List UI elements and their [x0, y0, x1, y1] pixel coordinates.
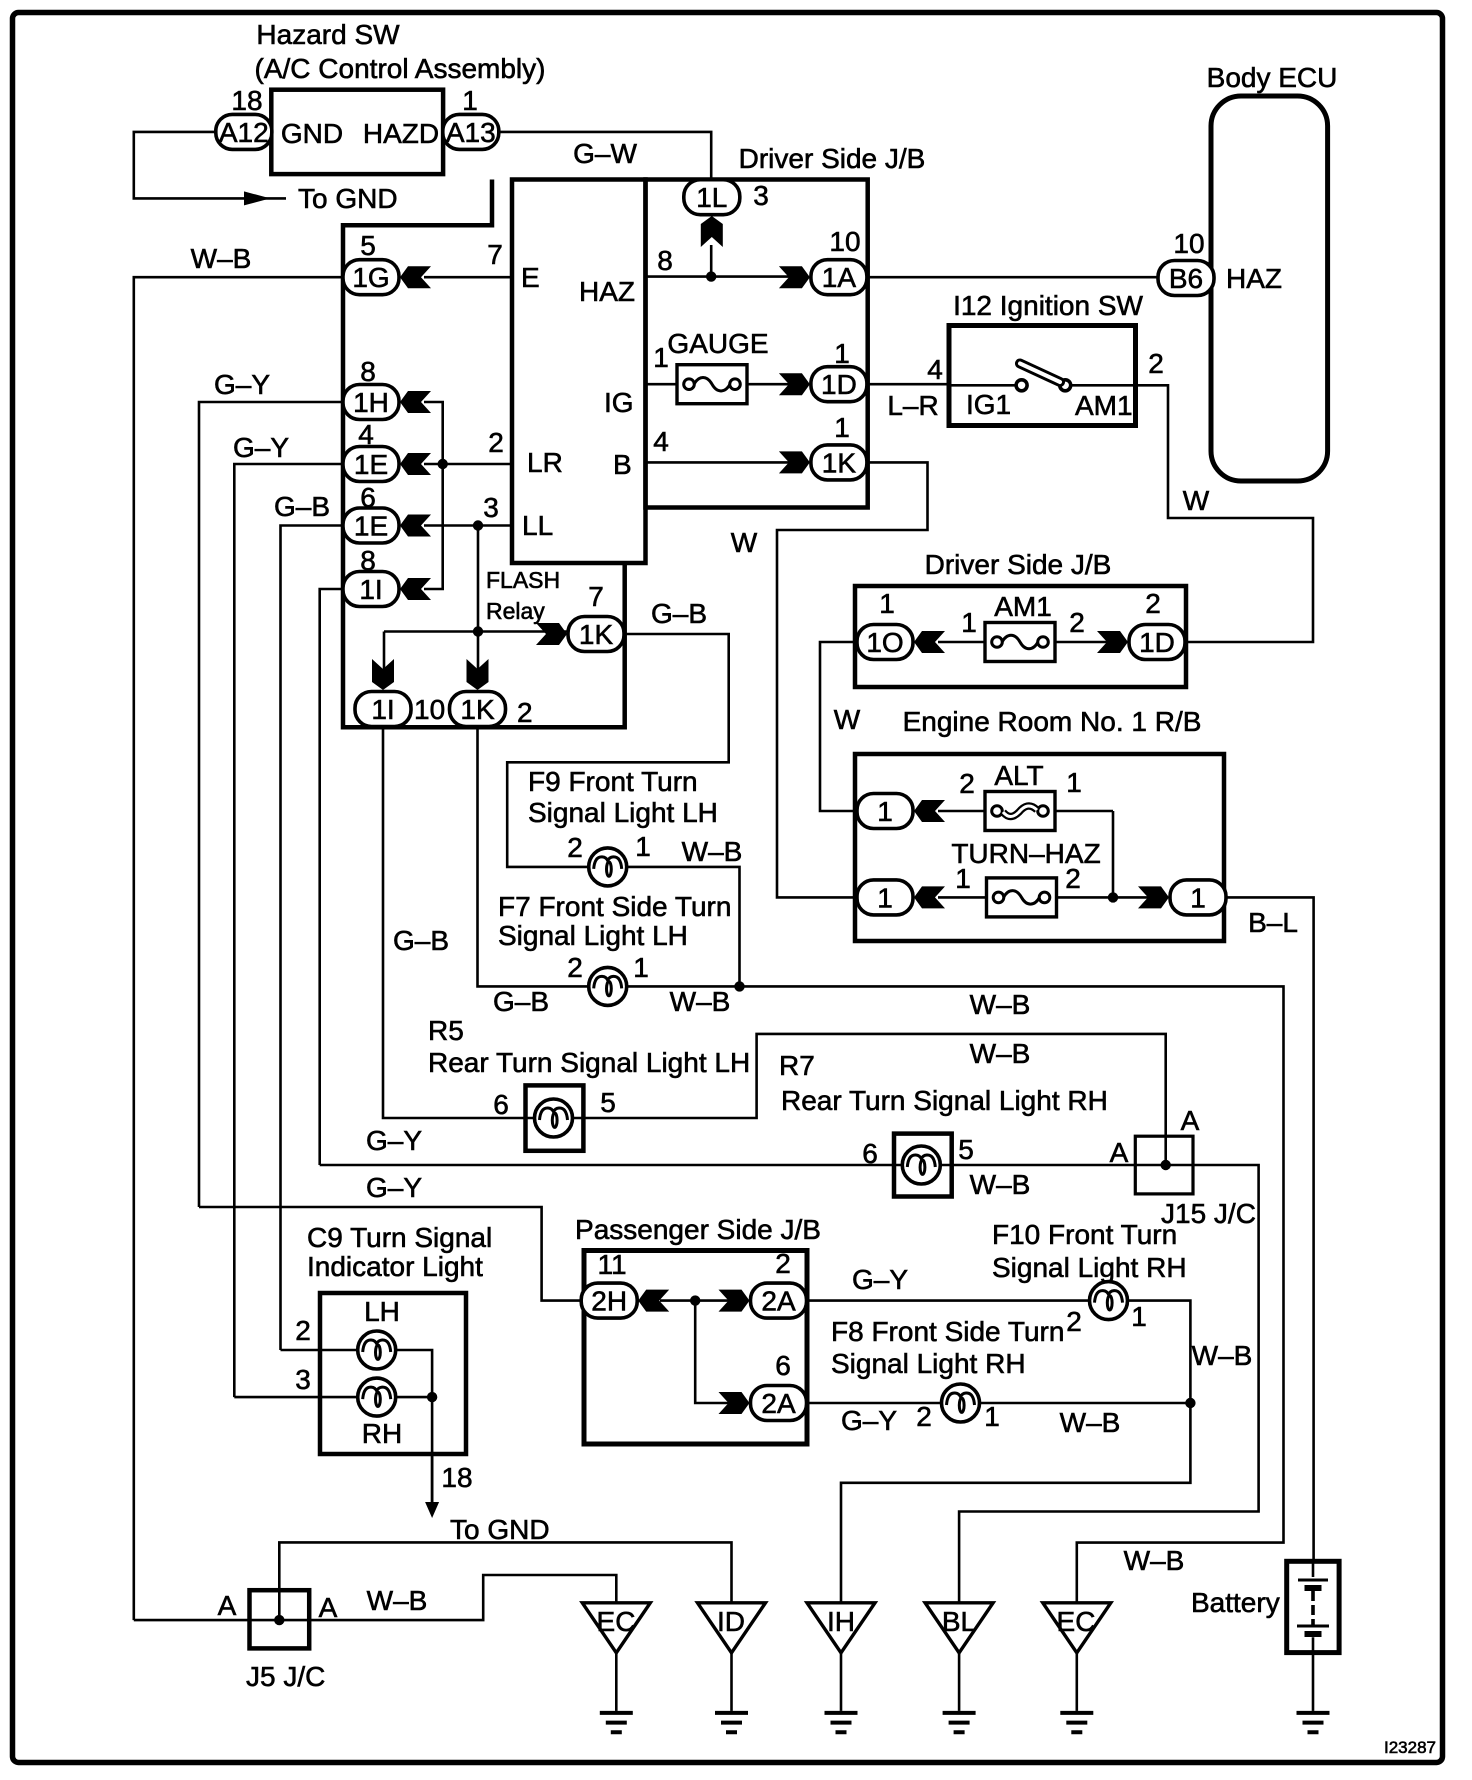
junction dot 2H row: [690, 1295, 700, 1305]
svg-text:B–L: B–L: [1248, 907, 1298, 938]
svg-text:6: 6: [493, 1089, 509, 1120]
svg-text:5: 5: [600, 1087, 616, 1118]
svg-text:2A: 2A: [761, 1388, 796, 1419]
arrow into 1K J/B: [779, 451, 810, 473]
wire ID triangle to ground: [730, 1653, 733, 1711]
C9 indicator box: [320, 1293, 466, 1454]
svg-text:2: 2: [1069, 607, 1085, 638]
svg-text:Indicator Light: Indicator Light: [307, 1251, 483, 1282]
wire 1G W-B left rail down to J5: [134, 277, 343, 1620]
svg-text:Relay: Relay: [486, 598, 545, 624]
svg-text:W: W: [834, 704, 861, 735]
svg-text:(A/C Control Assembly): (A/C Control Assembly): [255, 53, 546, 84]
svg-text:1: 1: [1131, 1301, 1147, 1332]
svg-text:HAZD: HAZD: [363, 118, 439, 149]
junction dot F8 row: [1185, 1398, 1195, 1408]
svg-text:LL: LL: [522, 510, 553, 541]
svg-text:1A: 1A: [822, 262, 857, 293]
svg-text:6: 6: [862, 1138, 878, 1169]
svg-text:1: 1: [834, 338, 850, 369]
svg-text:3: 3: [295, 1364, 311, 1395]
arrow into 1G: [400, 266, 431, 288]
connector oval 1 TURN-HAZ right: [1170, 880, 1226, 915]
wire 2A G-Y to F8: [807, 1402, 942, 1405]
svg-text:C9 Turn Signal: C9 Turn Signal: [307, 1222, 492, 1253]
wire 1E G-B rail down to C9 LH: [281, 526, 344, 1351]
ignition switch box: [949, 326, 1136, 426]
bulb F7 front side turn signal LH: [589, 967, 627, 1005]
wire J15 W-B to BL ground: [959, 1165, 1259, 1603]
ground triangle ID: [698, 1603, 766, 1653]
wire F7 W-B to EC ground: [627, 986, 1284, 1602]
wire EC2 triangle to ground: [1076, 1653, 1079, 1711]
svg-text:2: 2: [1065, 863, 1081, 894]
arrow To GND C9 pin 18: [425, 1502, 439, 1518]
svg-text:2: 2: [1066, 1306, 1082, 1337]
arrow into 2A lower: [719, 1392, 750, 1414]
svg-text:EC: EC: [597, 1606, 636, 1637]
svg-text:Passenger Side J/B: Passenger Side J/B: [575, 1214, 821, 1245]
svg-text:1O: 1O: [866, 627, 903, 658]
svg-text:F7 Front Side Turn: F7 Front Side Turn: [498, 891, 731, 922]
svg-text:A: A: [1110, 1137, 1129, 1168]
arrow into 1D: [779, 373, 810, 395]
arrow into 1I: [400, 578, 431, 600]
svg-text:Battery: Battery: [1191, 1587, 1280, 1618]
svg-text:5: 5: [958, 1134, 974, 1165]
TURN-HAZ fuse: [987, 878, 1057, 917]
wire 1H G-Y rail down: [199, 402, 343, 1207]
svg-text:1: 1: [1190, 882, 1206, 913]
connector oval 1K J/B: [811, 445, 867, 480]
arrow To GND top: [244, 191, 270, 205]
svg-text:GAUGE: GAUGE: [667, 328, 768, 359]
junction dot LL row: [473, 520, 483, 530]
ground symbol IH: [825, 1713, 858, 1732]
svg-text:2: 2: [959, 768, 975, 799]
wire TURN-HAZ fuse row: [938, 896, 1160, 899]
svg-text:1E: 1E: [354, 511, 388, 542]
svg-text:I23287: I23287: [1384, 1738, 1436, 1757]
svg-text:W–B: W–B: [191, 243, 252, 274]
svg-text:1: 1: [633, 952, 649, 983]
svg-text:Signal Light LH: Signal Light LH: [498, 920, 688, 951]
svg-text:10: 10: [829, 226, 860, 257]
svg-text:Engine Room No. 1 R/B: Engine Room No. 1 R/B: [903, 706, 1202, 737]
svg-text:1: 1: [462, 85, 478, 116]
bulb F10 front turn signal RH: [1090, 1282, 1128, 1320]
svg-text:3: 3: [753, 180, 769, 211]
J5 J/C box: [250, 1590, 310, 1648]
svg-text:2: 2: [567, 952, 583, 983]
svg-text:1D: 1D: [821, 369, 857, 400]
svg-text:1K: 1K: [822, 447, 857, 478]
junction dot LR column: [438, 459, 448, 469]
wire 1K W to engine room: [777, 462, 928, 897]
bulb F8 front side turn signal RH: [942, 1384, 980, 1422]
arrow into 1I bottom: [372, 659, 394, 690]
svg-text:10: 10: [414, 694, 445, 725]
ground symbol BL: [943, 1713, 976, 1732]
svg-text:Driver Side J/B: Driver Side J/B: [739, 143, 926, 174]
junction dot ALT TURN-HAZ: [1108, 892, 1118, 902]
ground symbol EC: [600, 1713, 633, 1732]
arrow into 1K bottom: [467, 659, 489, 690]
svg-text:W–B: W–B: [682, 836, 743, 867]
connector oval 1E lower: [343, 508, 399, 543]
svg-text:1: 1: [879, 588, 895, 619]
battery box: [1287, 1561, 1339, 1652]
junction dot C9 RH row: [427, 1392, 437, 1402]
svg-text:LR: LR: [527, 447, 563, 478]
svg-text:W–B: W–B: [367, 1585, 428, 1616]
wire TURN-HAZ B-L to battery: [1226, 897, 1314, 1561]
arrow into 1E lower: [400, 515, 431, 537]
svg-text:Hazard SW: Hazard SW: [256, 19, 400, 50]
svg-text:Signal Light RH: Signal Light RH: [992, 1252, 1187, 1283]
junction dot HAZ row: [706, 271, 716, 281]
svg-text:Body ECU: Body ECU: [1207, 62, 1338, 93]
svg-text:5: 5: [360, 230, 376, 261]
AM1 fuse: [985, 623, 1055, 662]
wire LR pin 2: [424, 463, 512, 466]
svg-text:1K: 1K: [460, 694, 495, 725]
junction dot J5: [274, 1615, 284, 1625]
connector oval A12: [216, 114, 272, 149]
arrow into 1A: [779, 266, 810, 288]
connector oval 1I: [343, 572, 399, 607]
svg-text:1H: 1H: [353, 387, 389, 418]
ground triangle EC: [582, 1603, 650, 1653]
wire E pin 7 to 1G: [424, 276, 512, 279]
svg-text:7: 7: [588, 581, 604, 612]
svg-text:W: W: [1183, 485, 1210, 516]
wire junction down to 2A lower: [695, 1301, 742, 1403]
wire 1I bottom G-B rail to R5: [383, 727, 526, 1119]
svg-text:2: 2: [1145, 588, 1161, 619]
wire C9 LH pin 2: [281, 1349, 358, 1352]
svg-text:G–Y: G–Y: [233, 432, 289, 463]
svg-text:7: 7: [487, 239, 503, 270]
ignition switch lever: [1020, 364, 1060, 383]
junction dot J15: [1161, 1160, 1171, 1170]
svg-text:I12 Ignition SW: I12 Ignition SW: [953, 290, 1143, 321]
svg-text:1G: 1G: [352, 262, 389, 293]
svg-text:2A: 2A: [761, 1286, 796, 1317]
body ECU box: [1211, 96, 1328, 481]
wire A13 G-W to 1L: [498, 132, 711, 180]
wire 1I stub G-Y rail down to R7: [320, 589, 343, 1165]
arrow into 2H: [638, 1290, 669, 1312]
wire 1O to AM1 fuse: [938, 641, 1121, 644]
svg-text:G–B: G–B: [274, 491, 330, 522]
svg-text:W–B: W–B: [1124, 1545, 1185, 1576]
wire A12 to GND: [134, 132, 286, 199]
ground triangle IH: [807, 1603, 875, 1653]
driver side J/B no.2 box: [855, 586, 1186, 687]
svg-text:B: B: [613, 449, 632, 480]
wire R7 row from 1I rail: [320, 1164, 1136, 1167]
arrow into 1O: [914, 631, 945, 653]
ground symbol EC right: [1060, 1713, 1093, 1732]
svg-text:J5 J/C: J5 J/C: [246, 1661, 325, 1692]
connector oval A13: [443, 114, 499, 149]
wire 1D to ignition SW: [868, 383, 949, 386]
wire 1H arrow to LR column: [424, 402, 443, 589]
svg-text:4: 4: [927, 354, 943, 385]
svg-text:1: 1: [877, 796, 893, 827]
arrow into 1L: [701, 216, 723, 247]
ground triangle EC right: [1043, 1603, 1111, 1653]
connector oval 1A: [811, 260, 867, 295]
svg-text:W: W: [731, 527, 758, 558]
svg-text:G–Y: G–Y: [841, 1405, 897, 1436]
svg-text:8: 8: [360, 356, 376, 387]
svg-text:R5: R5: [428, 1015, 464, 1046]
svg-text:Rear Turn Signal Light LH: Rear Turn Signal Light LH: [428, 1047, 750, 1078]
svg-text:A: A: [319, 1592, 338, 1623]
arrow into TURN-HAZ left oval: [914, 886, 945, 908]
connector oval 1 TURN-HAZ left: [857, 880, 913, 915]
svg-text:1: 1: [834, 412, 850, 443]
svg-text:1D: 1D: [1139, 627, 1175, 658]
svg-text:R7: R7: [779, 1050, 815, 1081]
svg-text:1L: 1L: [696, 182, 727, 213]
svg-text:Signal Light RH: Signal Light RH: [831, 1348, 1026, 1379]
svg-text:W–B: W–B: [970, 1169, 1031, 1200]
connector oval 1G: [343, 260, 399, 295]
bulb F9 front turn signal LH: [589, 848, 627, 886]
connector oval 1I bottom: [355, 692, 411, 727]
svg-text:E: E: [521, 262, 540, 293]
wire 1O W rail to ALT: [820, 642, 857, 811]
wire LL column down to 1K bottom: [477, 526, 480, 689]
svg-text:2: 2: [488, 427, 504, 458]
svg-text:BL: BL: [942, 1606, 976, 1637]
svg-text:AM1: AM1: [1075, 390, 1133, 421]
svg-text:IG: IG: [604, 387, 634, 418]
R7 bulb box: [894, 1134, 952, 1197]
wire IH triangle to ground: [840, 1653, 843, 1711]
arrow into ALT oval: [914, 800, 945, 822]
battery plates: [1297, 1580, 1329, 1626]
svg-text:FLASH: FLASH: [486, 567, 560, 593]
ground symbol ID: [715, 1713, 748, 1732]
ground triangle BL: [925, 1603, 993, 1653]
wire flash relay output row: [384, 630, 570, 633]
wire C9 RH pin 3: [234, 1396, 432, 1399]
wire ignition internal row: [949, 384, 1136, 387]
svg-text:W–B: W–B: [1192, 1340, 1253, 1371]
wire battery to ground: [1312, 1653, 1315, 1711]
svg-text:AM1: AM1: [994, 591, 1052, 622]
svg-text:1: 1: [1066, 767, 1082, 798]
wire branch down to 1I bottom: [383, 632, 386, 689]
svg-text:3: 3: [483, 492, 499, 523]
svg-text:G–W: G–W: [573, 138, 637, 169]
wire F9 pin1 down to F7 row: [627, 867, 740, 987]
wire 1A to B6 G-W: [868, 276, 1158, 279]
connector oval 1E upper: [343, 447, 399, 482]
svg-text:LH: LH: [364, 1296, 400, 1327]
wire J5 up to ID ground: [279, 1542, 731, 1620]
junction dot F7 row: [734, 981, 744, 991]
svg-text:6: 6: [775, 1350, 791, 1381]
arrow into TURN-HAZ right oval: [1138, 886, 1169, 908]
svg-text:G–Y: G–Y: [366, 1125, 422, 1156]
svg-text:18: 18: [231, 85, 262, 116]
svg-text:RH: RH: [362, 1418, 402, 1449]
wire relay IG to GAUGE fuse to 1D: [646, 383, 804, 386]
svg-text:W–B: W–B: [670, 986, 731, 1017]
J15 J/C box: [1135, 1136, 1193, 1194]
wire 1L arrow to HAZ junction: [710, 245, 713, 277]
wire R5 pin5 W-B to J15: [583, 1034, 1165, 1165]
connector oval 2H: [581, 1283, 637, 1318]
wire ALT pin1 down to TURN-HAZ row: [1112, 811, 1115, 897]
svg-text:A: A: [218, 1590, 237, 1621]
wire AM1 W to JB2 1D: [1136, 385, 1314, 642]
svg-text:F10 Front Turn: F10 Front Turn: [992, 1219, 1177, 1250]
connector oval 1D J/B2: [1129, 625, 1185, 660]
svg-text:W–B: W–B: [970, 1038, 1031, 1069]
driver side J/B no.1 box: [646, 180, 868, 508]
connector oval 1H: [343, 385, 399, 420]
arrow into 1H: [400, 391, 431, 413]
ALT fusible link: [985, 792, 1055, 831]
svg-text:L–R: L–R: [887, 390, 938, 421]
svg-text:HAZ: HAZ: [1226, 263, 1282, 294]
svg-text:G–B: G–B: [651, 598, 707, 629]
wire BL triangle to ground: [958, 1653, 961, 1711]
wire 1K bottom G-B rail to F7: [478, 727, 589, 987]
svg-text:A12: A12: [219, 117, 269, 148]
svg-text:2: 2: [295, 1315, 311, 1346]
connector oval 1D: [811, 367, 867, 402]
connector oval B6: [1158, 261, 1214, 296]
connector oval 1L: [684, 180, 740, 215]
wire J15 through: [1135, 1164, 1193, 1167]
wire W-B rail into J5: [134, 1619, 250, 1622]
svg-text:18: 18: [441, 1462, 472, 1493]
wire J5 right to EC ground: [309, 1575, 616, 1620]
flasher relay box: [512, 180, 646, 564]
wire 1E G-Y rail down to C9 RH: [234, 464, 343, 1397]
connector oval 1K bottom: [450, 692, 506, 727]
wire R5 inner row: [526, 1117, 584, 1120]
wire 2H to 2A internal: [660, 1299, 742, 1302]
connector oval 2A upper: [751, 1283, 807, 1318]
wire ALT fuse row: [938, 810, 1113, 813]
bulb R7 rear turn signal RH: [902, 1146, 940, 1184]
svg-text:W–B: W–B: [1060, 1407, 1121, 1438]
wire F10 pin1 W-B down: [1128, 1301, 1191, 1403]
ignition switch contacts: [1016, 380, 1027, 391]
wire EC triangle to ground: [615, 1653, 618, 1711]
wire G-Y rail to 2H: [199, 1207, 581, 1301]
svg-text:1: 1: [635, 831, 651, 862]
svg-text:Signal Light LH: Signal Light LH: [528, 797, 718, 828]
wire F8 pin1 W-B to IH ground: [841, 1403, 1190, 1603]
arrow into 1D J/B2: [1097, 631, 1128, 653]
bulb C9 LH indicator: [358, 1331, 396, 1369]
svg-text:2H: 2H: [591, 1286, 627, 1317]
svg-text:1: 1: [961, 607, 977, 638]
wire relay B pin 4 to 1K: [646, 461, 804, 464]
svg-text:2: 2: [1148, 348, 1164, 379]
svg-text:A13: A13: [446, 117, 496, 148]
svg-text:To GND: To GND: [298, 183, 398, 214]
svg-text:G–B: G–B: [393, 925, 449, 956]
svg-text:W–B: W–B: [970, 989, 1031, 1020]
svg-text:10: 10: [1173, 228, 1204, 259]
junction dot relay output row: [473, 626, 483, 636]
connector oval 2A lower: [751, 1386, 807, 1421]
passenger side J/B box: [584, 1251, 807, 1445]
svg-text:B6: B6: [1169, 263, 1203, 294]
svg-text:HAZ: HAZ: [579, 276, 635, 307]
svg-text:Rear Turn Signal Light RH: Rear Turn Signal Light RH: [781, 1085, 1108, 1116]
svg-text:Driver Side J/B: Driver Side J/B: [925, 549, 1112, 580]
svg-text:To GND: To GND: [450, 1514, 550, 1545]
svg-text:1I: 1I: [371, 694, 394, 725]
svg-text:1: 1: [877, 882, 893, 913]
svg-text:EC: EC: [1057, 1606, 1096, 1637]
arrow into 1E upper: [400, 453, 431, 475]
svg-text:G–Y: G–Y: [852, 1264, 908, 1295]
svg-text:11: 11: [597, 1249, 626, 1280]
wire C9 pin18 arrow stem: [431, 1454, 434, 1505]
wire relay 1K G-B to F9: [507, 634, 729, 867]
wire 2A G-Y to F10: [807, 1299, 1090, 1302]
wire LL pin 3: [424, 524, 512, 527]
svg-text:1E: 1E: [354, 449, 388, 480]
R5 bulb box: [526, 1085, 584, 1150]
svg-text:2: 2: [517, 697, 533, 728]
arrow into 2A upper: [719, 1290, 750, 1312]
svg-text:G–Y: G–Y: [214, 369, 270, 400]
wire C9 LH to pin18 column: [396, 1350, 432, 1503]
connector oval 1K relay output: [568, 617, 624, 652]
svg-text:1K: 1K: [579, 619, 614, 650]
svg-text:2: 2: [916, 1401, 932, 1432]
svg-text:8: 8: [657, 245, 673, 276]
hazard switch box: [271, 90, 443, 174]
bulb R5 rear turn signal LH: [535, 1099, 573, 1137]
wire HAZ pin 8 row: [646, 275, 804, 278]
svg-text:IH: IH: [827, 1606, 855, 1637]
GAUGE fuse: [677, 365, 747, 404]
bulb C9 RH indicator: [358, 1378, 396, 1416]
svg-text:1: 1: [653, 342, 669, 373]
svg-text:IG1: IG1: [966, 389, 1011, 420]
svg-text:2: 2: [567, 832, 583, 863]
engine room no.1 R/B box: [855, 754, 1224, 941]
svg-text:A: A: [1181, 1105, 1200, 1136]
svg-text:1: 1: [955, 863, 971, 894]
svg-text:F8 Front Side Turn: F8 Front Side Turn: [831, 1316, 1064, 1347]
svg-text:G–Y: G–Y: [366, 1172, 422, 1203]
ground symbol battery: [1297, 1713, 1330, 1732]
arrow into 1K relay: [536, 623, 567, 645]
svg-text:F9 Front Turn: F9 Front Turn: [528, 766, 698, 797]
connector oval 1 ALT: [857, 794, 913, 829]
svg-text:GND: GND: [281, 118, 343, 149]
svg-text:G–B: G–B: [493, 986, 549, 1017]
wire J5 internal: [250, 1619, 310, 1622]
connector oval 1O: [857, 625, 913, 660]
svg-text:1I: 1I: [359, 574, 382, 605]
